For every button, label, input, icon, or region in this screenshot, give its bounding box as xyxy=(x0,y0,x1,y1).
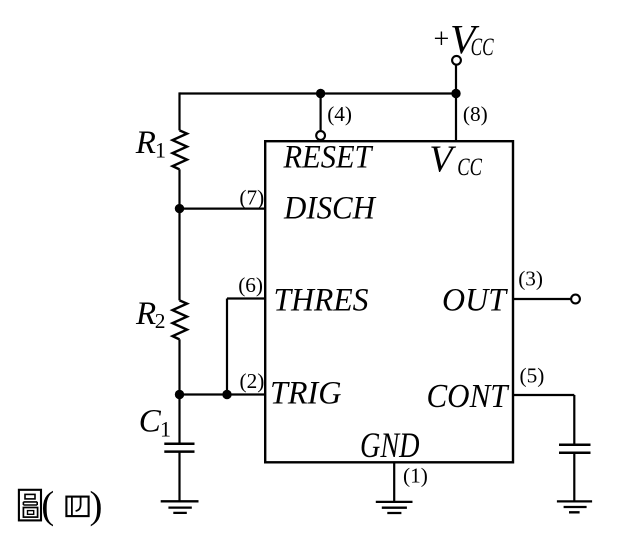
wire RESET pin 4 drop xyxy=(320,94,322,132)
svg-text:): ) xyxy=(90,484,103,527)
terminal RESET open circle xyxy=(316,131,325,140)
svg-text:TRIG: TRIG xyxy=(270,376,342,412)
wire CONT pin 5 xyxy=(513,395,574,445)
svg-text:R: R xyxy=(135,125,156,161)
svg-text:CONT: CONT xyxy=(427,378,510,415)
wire TRIG pin 2 xyxy=(180,393,266,395)
wire GND pin 1 drop xyxy=(393,462,395,502)
svg-text:2: 2 xyxy=(155,309,166,333)
ground (below C2) xyxy=(557,501,592,512)
wire C2 to ground xyxy=(573,453,575,502)
svg-text:CC: CC xyxy=(457,152,482,181)
svg-text:R: R xyxy=(135,296,156,332)
resistor R2 xyxy=(173,300,188,339)
svg-text:(5): (5) xyxy=(520,364,545,388)
svg-text:V: V xyxy=(429,139,456,181)
CJK glyph 四 xyxy=(66,497,88,516)
svg-text:C: C xyxy=(139,404,162,440)
svg-text:1: 1 xyxy=(155,137,166,162)
svg-text:+: + xyxy=(434,24,450,55)
svg-text:1: 1 xyxy=(160,417,171,442)
svg-text:(: ( xyxy=(41,484,54,527)
node junction top rail / VCC xyxy=(451,89,460,98)
wire left rail upper xyxy=(178,92,180,130)
wire top rail xyxy=(180,92,457,94)
node junction TRIG / THRES branch xyxy=(222,390,231,399)
node junction top rail / RESET xyxy=(316,89,325,98)
op-amp U1 timer IC box xyxy=(265,141,513,462)
capacitor C1 xyxy=(164,444,194,452)
svg-text:(6): (6) xyxy=(238,273,263,297)
wire left rail middle xyxy=(178,169,180,300)
wire VCC pin 8 drop xyxy=(455,65,457,141)
svg-text:(3): (3) xyxy=(518,267,543,291)
svg-text:(4): (4) xyxy=(327,102,352,126)
node junction DISCH / left rail xyxy=(175,204,184,213)
wire DISCH pin 7 xyxy=(180,208,266,210)
wire left rail lower xyxy=(178,339,180,443)
svg-text:(7): (7) xyxy=(239,186,264,210)
ground (below C1) xyxy=(161,501,199,513)
terminal OUT open circle xyxy=(571,295,580,304)
svg-text:GND: GND xyxy=(360,425,420,465)
terminal +VCC open circle xyxy=(452,56,461,65)
ground (below GND pin) xyxy=(376,502,413,513)
svg-text:(8): (8) xyxy=(463,102,488,126)
wire THRES pin 6 xyxy=(227,297,265,299)
CJK glyph 圖 xyxy=(19,490,41,521)
svg-text:(2): (2) xyxy=(240,369,265,393)
node junction TRIG / left rail xyxy=(175,390,184,399)
svg-text:RESET: RESET xyxy=(283,140,374,176)
svg-text:(1): (1) xyxy=(403,464,428,488)
svg-text:CC: CC xyxy=(471,32,495,61)
wire OUT pin 3 xyxy=(513,298,571,300)
resistor R1 xyxy=(173,130,188,169)
label figure caption 圖(四) xyxy=(19,490,89,521)
wire C1 to ground xyxy=(178,452,180,502)
capacitor C2 xyxy=(559,445,591,453)
wire THRES branch vertical xyxy=(226,299,228,395)
svg-text:DISCH: DISCH xyxy=(283,190,377,226)
svg-text:THRES: THRES xyxy=(274,282,369,318)
svg-text:OUT: OUT xyxy=(442,283,509,319)
